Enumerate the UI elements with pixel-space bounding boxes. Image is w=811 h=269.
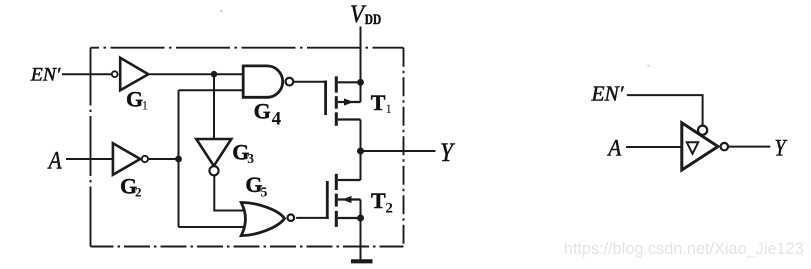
svg-text:EN′: EN′ — [590, 82, 623, 106]
svg-text:4: 4 — [272, 108, 282, 129]
svg-text:2: 2 — [135, 184, 142, 199]
svg-text:2: 2 — [385, 201, 393, 217]
svg-text:https://blog.csdn.net/Xiao_Jie: https://blog.csdn.net/Xiao_Jie123 — [564, 240, 804, 258]
svg-text:A: A — [47, 146, 62, 175]
svg-text:A: A — [606, 135, 622, 160]
svg-text:T: T — [371, 90, 386, 115]
svg-text:G: G — [254, 98, 271, 123]
svg-text:5: 5 — [260, 185, 267, 200]
svg-text:3: 3 — [247, 151, 254, 166]
svg-text:Y: Y — [775, 136, 788, 162]
svg-text:T: T — [371, 188, 386, 213]
svg-text:G: G — [126, 87, 143, 112]
svg-text:1: 1 — [385, 101, 392, 116]
svg-text:DD: DD — [365, 12, 382, 28]
svg-text:EN′: EN′ — [30, 65, 61, 86]
svg-text:1: 1 — [142, 97, 149, 112]
svg-text:Y: Y — [440, 138, 455, 167]
